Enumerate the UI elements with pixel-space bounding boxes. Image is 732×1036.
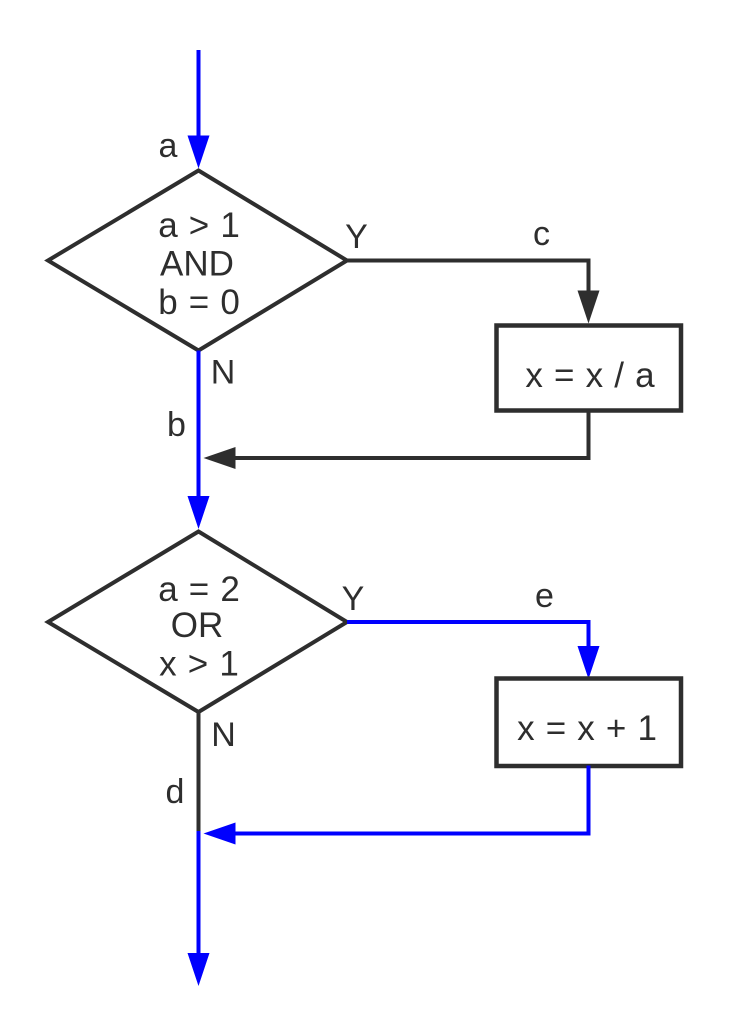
arrowhead into junction J1 bbox=[204, 447, 236, 469]
svg-text:AND: AND bbox=[160, 245, 234, 284]
wire d: D2 bottom to junction J2 bbox=[197, 712, 201, 831]
arrowhead into process P2 bbox=[578, 646, 600, 679]
svg-text:N: N bbox=[211, 716, 236, 754]
arrowhead into process P1 bbox=[578, 291, 600, 324]
arrowhead exit bbox=[188, 953, 210, 986]
svg-text:b = 0: b = 0 bbox=[158, 283, 240, 322]
arrowhead into junction J2 bbox=[204, 823, 236, 845]
svg-text:e: e bbox=[535, 577, 554, 615]
wire from P1 bottom to junction J1 bbox=[235, 411, 589, 459]
svg-text:d: d bbox=[166, 773, 185, 811]
svg-text:Y: Y bbox=[342, 580, 365, 618]
arrowhead entry into decision D1 bbox=[188, 136, 210, 169]
svg-text:Y: Y bbox=[345, 218, 368, 256]
svg-text:c: c bbox=[533, 215, 550, 253]
arrowhead into decision D2 bbox=[188, 496, 210, 529]
decision D2 a=2 OR x>1 bbox=[48, 532, 347, 713]
svg-text:a: a bbox=[159, 127, 178, 165]
wire b: D1 bottom to decision D2 bbox=[197, 351, 201, 501]
wire c: D1 right vertex to process P1 bbox=[347, 261, 589, 293]
wire exit (bottom) bbox=[197, 831, 201, 955]
process P1 x = x / a bbox=[497, 326, 682, 411]
wire from P2 bottom to junction J2 bbox=[235, 766, 589, 834]
wire entry (top) bbox=[197, 50, 201, 140]
svg-text:N: N bbox=[211, 354, 236, 392]
decision D1 a>1 AND b=0 bbox=[48, 171, 347, 351]
svg-text:a > 1: a > 1 bbox=[158, 206, 240, 245]
svg-text:x = x / a: x = x / a bbox=[525, 356, 655, 395]
process P2 x = x + 1 bbox=[497, 679, 682, 767]
svg-text:x > 1: x > 1 bbox=[159, 645, 239, 684]
svg-text:x = x + 1: x = x + 1 bbox=[517, 709, 657, 748]
svg-text:b: b bbox=[167, 406, 186, 444]
svg-text:a = 2: a = 2 bbox=[158, 570, 240, 609]
svg-text:OR: OR bbox=[171, 606, 224, 645]
wire e: D2 right vertex to process P2 bbox=[347, 622, 589, 647]
